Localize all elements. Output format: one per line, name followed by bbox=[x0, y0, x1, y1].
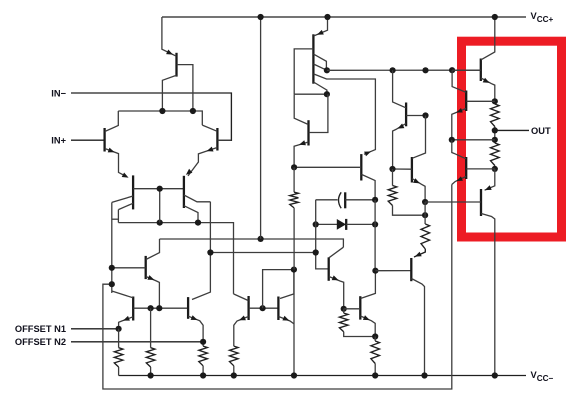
node Q12 collector bbox=[324, 91, 330, 97]
node Q15 base junction bbox=[422, 112, 428, 118]
resistor R7 bbox=[491, 143, 500, 166]
wire Q4-collector bus bbox=[210, 252, 315, 254]
node rail R3 junction bbox=[200, 372, 206, 378]
resistor R4 bbox=[230, 346, 239, 366]
wire R10 bottom bbox=[393, 206, 426, 216]
wire x425 link bbox=[424, 202, 426, 224]
transistor Q24 bbox=[360, 154, 362, 180]
svg-text:IN−: IN− bbox=[51, 89, 66, 99]
transistor Q11 bbox=[277, 297, 279, 321]
node R5 bottom bbox=[291, 267, 297, 273]
wire OFFSET N1 lead bbox=[71, 328, 119, 330]
node Q20 base node bbox=[422, 199, 428, 205]
node Q16 emitter junction bbox=[341, 306, 347, 312]
node Q22 base junction bbox=[389, 166, 395, 172]
wire Q11 diode link bbox=[263, 270, 294, 309]
svg-text:OUT: OUT bbox=[531, 126, 551, 136]
wire R9 bottom bbox=[374, 364, 376, 376]
transistor Q2 bbox=[216, 128, 218, 151]
wire Q23 base line bbox=[375, 270, 411, 272]
node rail R9 junction bbox=[372, 372, 378, 378]
node bias y70 a bbox=[390, 67, 396, 73]
wire R4 bottom bbox=[233, 366, 235, 376]
wire VBE multiplier tie bbox=[452, 139, 495, 141]
wire VCC+ rail bbox=[162, 16, 526, 18]
wire R6-R7 link bbox=[494, 127, 496, 144]
transistor Q14 bbox=[480, 59, 482, 82]
resistor R2 bbox=[146, 348, 155, 367]
node emitter bus 2 bbox=[156, 305, 162, 311]
wire R7 bottom bbox=[494, 166, 496, 169]
wire R8 bottom bbox=[344, 332, 376, 337]
node Q17 emitter junction bbox=[372, 333, 378, 339]
node rail Q20 junction bbox=[492, 372, 498, 378]
wire VCC- rail bbox=[119, 375, 526, 377]
node loop tie bbox=[109, 281, 115, 287]
svg-text:OFFSET N1: OFFSET N1 bbox=[15, 324, 66, 334]
resistor R3 bbox=[199, 346, 208, 366]
transistor Q7 bbox=[145, 256, 147, 279]
wire R2 bottom bbox=[150, 367, 152, 376]
transistor Q22 bbox=[411, 157, 413, 183]
resistor R9 bbox=[371, 341, 380, 364]
resistor R1 bbox=[114, 348, 123, 367]
capacitor C1 bbox=[316, 199, 338, 201]
transistor Q12 Q13 (dual-collector PNP) bbox=[312, 34, 314, 83]
node rail R2 junction bbox=[148, 372, 154, 378]
transistor Q3 bbox=[132, 175, 134, 209]
node base bus right bbox=[195, 220, 201, 226]
node D1 anode bbox=[313, 221, 319, 227]
node y252 right bbox=[313, 249, 319, 255]
wire input-collector bus bbox=[118, 111, 202, 125]
node OFFSET N2 bbox=[200, 339, 206, 345]
wire R5 top stub bbox=[293, 167, 295, 192]
wire second-stage bus bbox=[160, 239, 344, 247]
svg-text:OFFSET N2: OFFSET N2 bbox=[15, 337, 66, 347]
resistor R11 bbox=[421, 224, 430, 249]
node bias y70 b bbox=[422, 67, 428, 73]
node rail R4 junction bbox=[231, 372, 237, 378]
wire OFFSET N2 lead bbox=[71, 341, 203, 343]
wire IN+ lead bbox=[71, 139, 104, 141]
transistor Q15 bbox=[405, 103, 407, 127]
transistor Q5 bbox=[132, 297, 134, 321]
wire R1 bottom bbox=[118, 367, 120, 376]
wire bias line y70 bbox=[327, 69, 481, 71]
node R6 top bbox=[492, 98, 498, 104]
node base bus left bbox=[157, 220, 163, 226]
wire R5 bottom stub bbox=[293, 208, 295, 270]
red highlight box around output stage bbox=[462, 41, 562, 237]
node OUT bbox=[492, 127, 498, 133]
transistor Q20 bbox=[480, 189, 482, 216]
wire R11 to Q23 bbox=[414, 249, 425, 257]
node Q3 Q4 base junction bbox=[157, 186, 163, 192]
transistor Q19 bbox=[465, 157, 467, 179]
wire mirror bus bbox=[118, 223, 233, 294]
wire OUT lead bbox=[495, 129, 529, 131]
node Q7 base junction bbox=[109, 265, 115, 271]
wire diode column bbox=[374, 200, 376, 271]
wire R3 bottom bbox=[202, 366, 204, 376]
node C1 right bbox=[372, 197, 378, 203]
wire Q3 collector vertical bbox=[111, 202, 113, 293]
wire R10 top bbox=[392, 169, 394, 186]
node Q4 collector junction bbox=[207, 249, 213, 255]
node R10 node bbox=[422, 212, 428, 218]
wire IN- lead bbox=[71, 93, 231, 140]
wire Q3 finger vertical bbox=[117, 210, 119, 223]
wire Q4 collector vertical bbox=[192, 202, 210, 300]
wire Q11 emitter vertical bbox=[293, 270, 295, 376]
wire Q3 Q4 base line bbox=[133, 188, 183, 190]
wire R8 top bbox=[343, 309, 345, 313]
node Q24 base junction bbox=[291, 164, 297, 170]
resistor R6 bbox=[491, 104, 500, 127]
resistor R5 bbox=[290, 192, 299, 208]
node emitter bus 1 bbox=[148, 305, 154, 311]
transistor Q18 bbox=[465, 91, 467, 112]
resistor R10 bbox=[388, 186, 397, 206]
node VCC+ rail tap 3 bbox=[492, 14, 498, 20]
transistor Q8 bbox=[175, 53, 177, 77]
transistor Q10 bbox=[247, 296, 249, 320]
transistor Q4 bbox=[183, 176, 185, 208]
node Q8 base junction bbox=[190, 108, 196, 114]
wire R9 top bbox=[374, 337, 376, 342]
wire Q3Q4 base drop bbox=[159, 189, 161, 223]
wire R1 top bbox=[118, 329, 120, 348]
node VBE tie bbox=[492, 137, 498, 143]
transistor Q23 bbox=[410, 258, 412, 281]
node Q8 collector junction bbox=[159, 108, 165, 114]
node Q10 Q11 base bbox=[260, 305, 266, 311]
node rail Q11 junction bbox=[291, 372, 297, 378]
wire VCC+ bias vertical bbox=[260, 17, 262, 239]
resistor R8 bbox=[339, 313, 348, 332]
transistor Q6 bbox=[187, 297, 189, 319]
node bias y70 c bbox=[449, 67, 455, 73]
node VCC+ rail tap 2 bbox=[324, 14, 330, 20]
node Q19 base node bbox=[492, 166, 498, 172]
wire C1 left vertical bbox=[316, 200, 329, 269]
svg-text:IN+: IN+ bbox=[51, 136, 66, 146]
node bias column junction bbox=[258, 236, 264, 242]
wire Q19 emitter loop bbox=[103, 185, 452, 390]
node VCC+ rail tap 1 bbox=[258, 14, 264, 20]
node D1 cathode bbox=[372, 221, 378, 227]
transistor Q9 bbox=[307, 120, 309, 145]
wire R2 drop bbox=[150, 308, 152, 348]
node Q23 base junction bbox=[372, 268, 378, 274]
transistor Q1 bbox=[103, 128, 105, 152]
node OFFSET N1 bbox=[116, 326, 122, 332]
node Q18 Q19 tie bbox=[449, 137, 455, 143]
wire Q3 finger stub bbox=[112, 218, 119, 220]
diode D1 bbox=[316, 223, 337, 225]
wire base-collector tie bbox=[294, 93, 327, 95]
node rail Q23 junction bbox=[421, 372, 427, 378]
transistor Q17 bbox=[359, 296, 361, 319]
transistor Q16 bbox=[328, 257, 330, 280]
node Q13 collectors bbox=[324, 67, 330, 73]
